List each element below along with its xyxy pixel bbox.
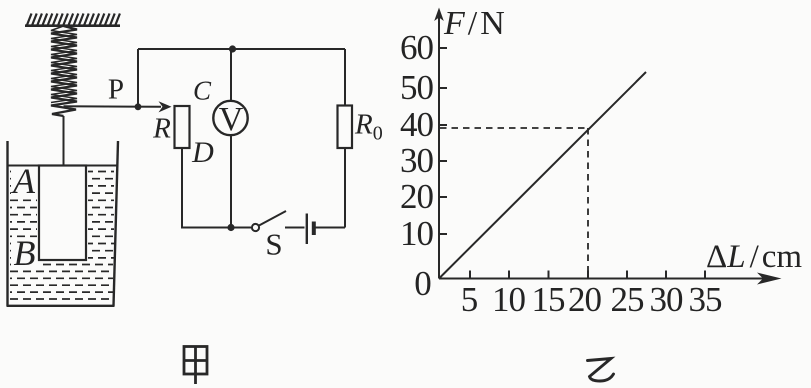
svg-text:35: 35 [689, 280, 723, 319]
dashed guide at dL=20 [587, 128, 589, 277]
svg-text:V: V [219, 101, 244, 138]
pointer wire from spring to P with wiper arrow [64, 105, 162, 108]
y-axis ticks [439, 48, 447, 234]
wire: top horizontal [138, 48, 345, 50]
svg-text:A: A [11, 161, 36, 201]
wire: voltmeter bottom lead [230, 135, 232, 227]
svg-text:30: 30 [400, 141, 434, 180]
plotted line F vs dL [440, 72, 647, 278]
wire: switch to battery [285, 227, 305, 229]
svg-text:20: 20 [568, 280, 602, 319]
svg-text:ΔL/cm: ΔL/cm [706, 239, 802, 275]
caption 甲 [184, 347, 207, 385]
object B (block) [39, 166, 86, 261]
battery cell [306, 214, 308, 245]
svg-text:R: R [152, 113, 171, 145]
svg-text:5: 5 [461, 280, 478, 319]
svg-text:C: C [193, 76, 212, 106]
svg-text:D: D [191, 136, 214, 169]
svg-text:25: 25 [611, 280, 645, 319]
wire: right vertical bottom segment [344, 148, 346, 228]
wire: from resistor D terminal down to bottom wire [182, 148, 251, 228]
svg-text:F/N: F/N [443, 5, 505, 42]
svg-text:B: B [14, 233, 36, 273]
junction dot on top wire [229, 45, 236, 52]
graph y-axis F [438, 14, 440, 279]
resistor R [175, 106, 190, 148]
container (vessel A) [7, 141, 119, 306]
wire: left vertical from top wire to P [137, 49, 139, 107]
wire: battery to right branch [316, 227, 346, 229]
svg-text:S: S [265, 227, 282, 262]
label patches for A and B [11, 167, 38, 268]
voltmeter U1 [213, 101, 247, 135]
liquid surface [9, 165, 118, 167]
svg-text:40: 40 [400, 105, 434, 144]
caption 乙 [588, 359, 614, 382]
resistor R0 [338, 106, 353, 149]
svg-text:50: 50 [400, 68, 434, 107]
spring [51, 26, 77, 116]
svg-text:30: 30 [650, 280, 684, 319]
svg-text:15: 15 [532, 280, 566, 319]
ceiling [25, 14, 120, 26]
x-axis ticks [470, 271, 705, 279]
svg-text:20: 20 [400, 177, 434, 216]
svg-text:10: 10 [492, 280, 526, 319]
dashed guide at F=40 [440, 127, 588, 129]
node P junction dot [135, 103, 142, 110]
svg-text:0: 0 [414, 264, 432, 303]
wire: voltmeter top lead [230, 49, 232, 101]
svg-text:10: 10 [400, 214, 434, 253]
svg-text:P: P [108, 74, 124, 106]
wire: right vertical top segment [344, 49, 346, 106]
switch S [252, 224, 259, 231]
graph x-axis dL [439, 278, 772, 280]
svg-text:R0: R0 [354, 109, 383, 145]
y-axis labels [400, 28, 434, 253]
liquid shading dashes [10, 172, 114, 300]
x-axis labels [461, 280, 722, 319]
svg-text:60: 60 [400, 28, 434, 67]
string from spring to object B [63, 116, 65, 166]
junction dot on bottom wire [227, 224, 234, 231]
